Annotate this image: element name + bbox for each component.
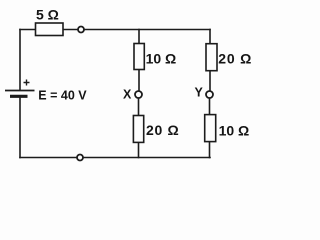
wire top	[20, 29, 210, 31]
resistor R2 10ohm top middle	[134, 44, 144, 70]
wire left lower	[19, 97, 21, 158]
svg-text:5 Ω: 5 Ω	[36, 6, 59, 22]
node X	[135, 91, 142, 98]
battery E	[5, 80, 35, 97]
svg-text:10 Ω: 10 Ω	[219, 122, 250, 138]
resistor R3 20ohm top right	[206, 44, 217, 71]
wire left upper	[19, 30, 21, 91]
resistor R4 20ohm bottom middle	[133, 116, 143, 143]
svg-text:E = 40 V: E = 40 V	[38, 89, 87, 103]
node top junction	[78, 27, 84, 33]
svg-text:20 Ω: 20 Ω	[218, 51, 252, 67]
svg-text:20 Ω: 20 Ω	[146, 122, 180, 138]
wire right branch	[209, 30, 211, 92]
svg-text:10 Ω: 10 Ω	[146, 51, 177, 67]
wire bottom	[20, 157, 210, 159]
svg-text:Y: Y	[195, 86, 204, 100]
svg-text:X: X	[123, 88, 132, 102]
resistor R5 10ohm bottom right	[205, 115, 216, 142]
resistor R1 5ohm	[36, 23, 64, 36]
wire middle branch	[138, 30, 140, 92]
node bottom junction	[77, 155, 83, 161]
node Y	[206, 91, 213, 98]
